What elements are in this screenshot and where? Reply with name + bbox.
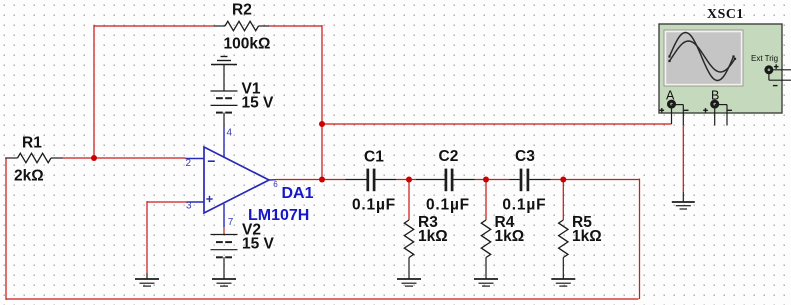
svg-text:15 V: 15 V <box>242 236 275 253</box>
svg-text:15 V: 15 V <box>242 95 275 112</box>
svg-text:R1: R1 <box>22 134 42 151</box>
svg-text:4: 4 <box>227 127 233 138</box>
svg-text:1kΩ: 1kΩ <box>495 228 525 245</box>
svg-text:C3: C3 <box>515 148 535 165</box>
svg-text:3: 3 <box>186 200 192 211</box>
svg-text:100kΩ: 100kΩ <box>224 35 271 52</box>
svg-text:1kΩ: 1kΩ <box>418 228 448 245</box>
svg-text:7: 7 <box>228 217 234 228</box>
svg-text:DA1: DA1 <box>282 185 314 202</box>
svg-text:2: 2 <box>186 158 192 169</box>
svg-text:Ext Trig: Ext Trig <box>751 54 778 63</box>
svg-text:1kΩ: 1kΩ <box>572 228 602 245</box>
svg-text:0.1µF: 0.1µF <box>502 196 546 213</box>
svg-text:6: 6 <box>273 180 278 189</box>
svg-text:XSC1: XSC1 <box>707 6 744 21</box>
svg-text:0.1µF: 0.1µF <box>352 196 396 213</box>
svg-text:C1: C1 <box>364 149 384 166</box>
svg-text:2kΩ: 2kΩ <box>14 167 44 184</box>
svg-text:0.1µF: 0.1µF <box>426 196 470 213</box>
svg-text:C2: C2 <box>439 148 459 165</box>
svg-text:R2: R2 <box>232 2 252 19</box>
